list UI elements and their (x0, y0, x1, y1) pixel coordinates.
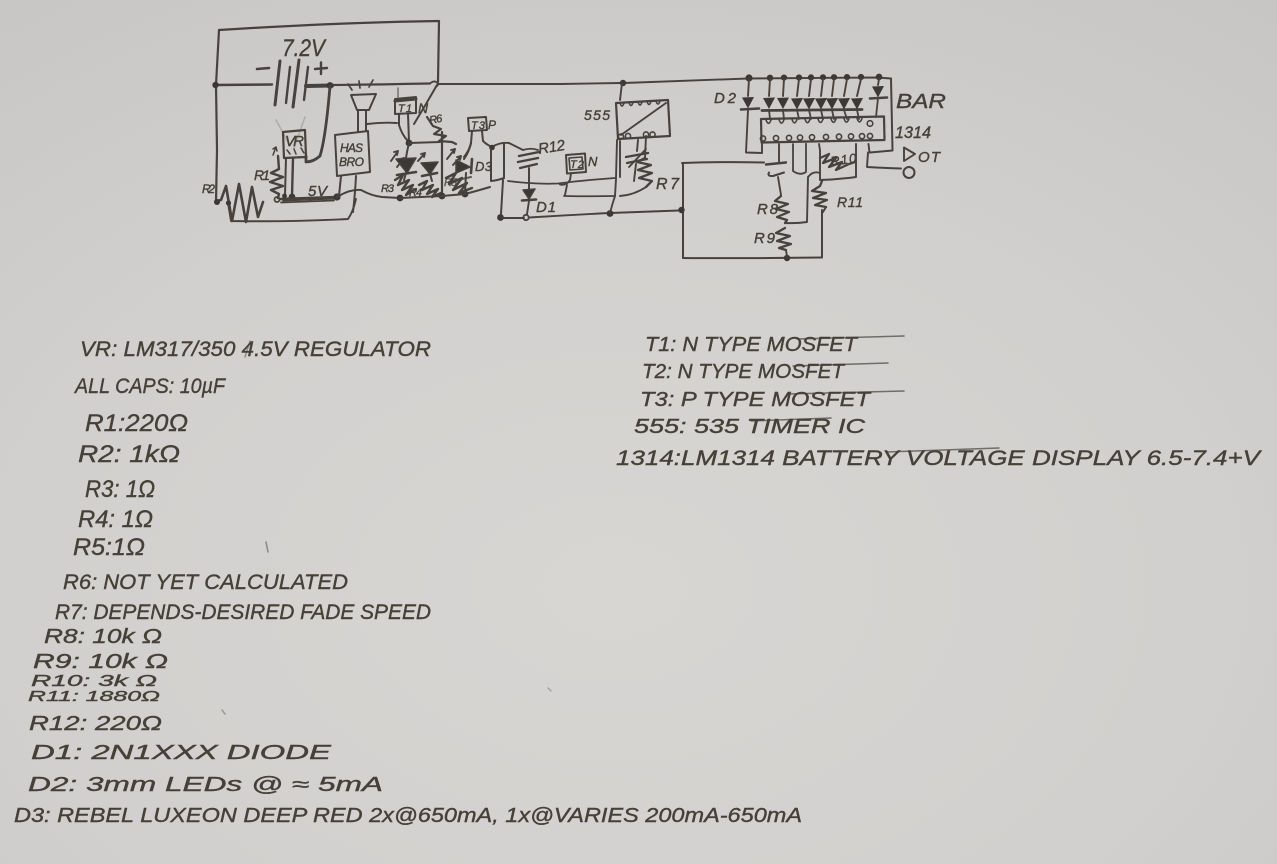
svg-text:HAS: HAS (340, 141, 363, 155)
diode D1 (523, 189, 535, 199)
T1 leads (399, 114, 408, 141)
resistor R7 (645, 136, 646, 158)
LED D2 triangles (742, 86, 884, 110)
node R3 bottom (397, 195, 404, 202)
DOT triangle (904, 148, 915, 162)
node rail to 555 (620, 80, 626, 86)
node LED3 bottom (462, 191, 469, 198)
LED D2 leads to chip (769, 98, 878, 119)
resistor R3 zigzag (395, 175, 416, 195)
buzzer HASBRO box (335, 131, 370, 176)
svg-text:R3: R3 (381, 183, 395, 195)
wire rail to 555 (620, 83, 622, 100)
svg-text:R11: R11 (837, 194, 863, 210)
handwriting overline T2 MOSFET (793, 363, 888, 366)
svg-text:5V: 5V (308, 183, 329, 200)
svg-text:D3: D3 (475, 159, 493, 174)
capacitor C2 under 555 (637, 140, 638, 151)
svg-text:R4: R4 (409, 187, 422, 199)
faint pencil smudge (276, 117, 305, 148)
node dot-mode circle (904, 167, 915, 178)
svg-text:R5:1Ω: R5:1Ω (73, 534, 145, 561)
wire rail bump to LED block (337, 190, 400, 198)
node D1 circle (523, 215, 528, 220)
VR lead left (285, 158, 286, 195)
VR pin marks (287, 148, 304, 154)
capacitor C3 under chip (778, 144, 780, 162)
resistor R2 zigzag (216, 184, 263, 222)
svg-text:N: N (588, 154, 598, 169)
svg-text:R9: R9 (754, 230, 776, 247)
battery box outline (219, 21, 439, 82)
node R2 right small circle (275, 197, 280, 202)
wire lower horizontal to 555 (564, 195, 615, 197)
wire left outer vertical (216, 85, 217, 202)
svg-text:R8: 10k Ω: R8: 10k Ω (44, 626, 162, 648)
LED D3b (421, 162, 438, 174)
svg-text:R1: R1 (254, 167, 270, 183)
555 diagonal (621, 103, 666, 135)
node T1 source (406, 140, 413, 147)
svg-text:R3: 1Ω: R3: 1Ω (85, 476, 155, 503)
svg-text:R1:220Ω: R1:220Ω (85, 410, 188, 437)
wire 555 left leads (616, 140, 620, 178)
wire mid vertical under R6 (441, 132, 443, 195)
wire bracket verticals (491, 149, 504, 181)
svg-text:1314:LM1314 BATTERY VOLTAGE DI: 1314:LM1314 BATTERY VOLTAGE DISPLAY 6.5-… (616, 447, 1262, 470)
wire top rail middle (438, 83, 621, 84)
resistor R10 zigzag (820, 154, 855, 170)
svg-text:VR: VR (285, 133, 304, 150)
chip bottom pin circles (760, 133, 872, 141)
wire 5V rail double line (280, 197, 336, 199)
node lower rail mid (607, 210, 614, 217)
svg-text:P: P (488, 118, 496, 132)
speaker sound ticks (348, 80, 373, 90)
svg-text:R12: 220Ω: R12: 220Ω (29, 713, 162, 735)
wire top rail left segment (215, 83, 272, 86)
capacitor R12 squiggle (519, 152, 539, 156)
resistor R9 (776, 228, 791, 250)
svg-text:T2: T2 (570, 159, 584, 171)
resistor R1 zigzag (270, 156, 283, 198)
stray pencil tick (266, 542, 268, 552)
svg-text:D3: REBEL LUXEON DEEP RED 2x@: D3: REBEL LUXEON DEEP RED 2x@650mA, 1x@V… (14, 805, 802, 827)
chip pin leads down (793, 144, 806, 174)
resistor R10 frame (819, 144, 856, 180)
wire mid horizontal (508, 178, 615, 184)
node battery plus (327, 82, 334, 89)
svg-text:R6: NOT YET CALCULATED: R6: NOT YET CALCULATED (63, 571, 348, 594)
wire T3 to R12 (492, 143, 523, 150)
svg-text:D1: D1 (536, 199, 556, 216)
wire R12 lead down (528, 168, 530, 189)
wire LED1 cathode around chip (746, 110, 762, 153)
LED D2 cathode bars smear (741, 109, 759, 110)
T3 leads (464, 131, 472, 157)
svg-text:R9: 10k Ω: R9: 10k Ω (33, 651, 168, 673)
transistor T1 box (395, 97, 416, 114)
resistor R4 zigzag (419, 181, 441, 197)
handwriting overline T3 MOSFET (787, 391, 904, 394)
LED D3c (456, 160, 470, 173)
svg-text:R11: 1880Ω: R11: 1880Ω (28, 688, 160, 705)
chip top pin bumps (766, 118, 862, 123)
node lower rail left (497, 214, 504, 221)
handwriting overline T1 MOSFET (797, 336, 904, 339)
VR lead right (292, 158, 293, 196)
svg-text:555: 555 (584, 107, 610, 123)
buzzer lead left (339, 176, 341, 196)
handwriting overline VOLTAGE (887, 448, 999, 452)
node 5V junction (333, 193, 340, 200)
frame box around R8 R9 (682, 161, 764, 164)
wire lower rail (503, 211, 679, 219)
handwriting overline TIMER (751, 418, 831, 421)
buzzer lead right (353, 176, 356, 212)
svg-text:N: N (418, 100, 429, 116)
svg-text:7.2V: 7.2V (282, 35, 327, 62)
wire speaker to T1 (367, 123, 397, 124)
svg-text:D2: 3mm LEDs @ ≈ 5mA: D2: 3mm LEDs @ ≈ 5mA (28, 774, 383, 796)
LED D3a arrows (391, 151, 404, 167)
node VR right junction (289, 194, 296, 201)
svg-text:BAR: BAR (896, 91, 946, 113)
resistor R11 zigzag (812, 181, 827, 207)
wire bottom return loop (228, 199, 356, 221)
svg-text:OT: OT (918, 149, 942, 166)
node frame bottom (784, 255, 790, 261)
wire R8 R9 junction to chip (785, 172, 820, 223)
svg-text:ALL CAPS: 10µF: ALL CAPS: 10µF (73, 375, 226, 398)
svg-text:VR: LM317/350 4.5V REGULATOR: VR: LM317/350 4.5V REGULATOR (80, 338, 431, 361)
resistor R8 (775, 196, 789, 223)
transistor T2 box (566, 154, 586, 174)
node VR left (282, 194, 287, 199)
node battery left (212, 82, 218, 88)
555 bottom pin circles (618, 134, 623, 139)
speaker symbol (351, 94, 376, 110)
battery B1 symbol (257, 68, 269, 69)
svg-text:R7: DEPENDS-DESIRED FADE SPEED: R7: DEPENDS-DESIRED FADE SPEED (55, 601, 431, 624)
wire to dot-mode pin (867, 153, 901, 169)
wire LED rail (400, 187, 490, 198)
svg-text:R8: R8 (757, 201, 779, 218)
LED D3a (396, 158, 416, 173)
LED D2 leads from rail (748, 79, 879, 96)
svg-text:1314: 1314 (895, 123, 931, 142)
svg-text:T2: N TYPE MOSFET: T2: N TYPE MOSFET (642, 361, 846, 383)
LED D3c arrows (447, 149, 461, 165)
wire outer right edge (891, 79, 893, 151)
node bar dots on rail (745, 74, 882, 82)
svg-text:T1: T1 (398, 103, 412, 115)
svg-text:T3: T3 (471, 120, 486, 132)
node T3 wire (489, 145, 495, 151)
wire top rail right (624, 78, 891, 84)
svg-text:D1: 2N1XXX DIODE: D1: 2N1XXX DIODE (31, 742, 332, 764)
555 top pin bumps (620, 101, 660, 106)
wire rail to T1 diagonal (414, 85, 437, 124)
wire top rail after battery (306, 84, 332, 89)
svg-text:R2: 1kΩ: R2: 1kΩ (78, 441, 180, 468)
VR arrow A (273, 147, 277, 155)
IC 1314 chip body (761, 117, 885, 143)
node mid rail (439, 193, 446, 200)
svg-text:T1: N TYPE MOSFET: T1: N TYPE MOSFET (645, 334, 859, 356)
svg-text:R2: R2 (202, 182, 215, 196)
node left rail bottom (214, 199, 220, 205)
node loop left (226, 200, 231, 205)
svg-text:R4: 1Ω: R4: 1Ω (78, 506, 153, 533)
resistor R6 zigzag (427, 117, 456, 144)
LED D3b arrows (418, 153, 425, 161)
slash in VR note line (245, 341, 250, 357)
node frame left (678, 207, 684, 213)
svg-text:T3: P TYPE MOSFET: T3: P TYPE MOSFET (640, 389, 872, 411)
regulator VR box (283, 130, 306, 158)
stray speck (222, 710, 225, 714)
svg-text:555: 535 TIMER IC: 555: 535 TIMER IC (634, 416, 866, 438)
transistor T3 box (468, 117, 487, 131)
resistor R5 zigzag (446, 173, 472, 193)
wire bracket to lower rail (501, 180, 503, 214)
wire battery plus down to VR (306, 86, 330, 162)
svg-text:R5: R5 (444, 177, 458, 189)
svg-text:BRO: BRO (339, 155, 364, 169)
wire node to R6 vertical (409, 142, 440, 143)
T2 lead (560, 174, 571, 185)
node hook at battery box right (430, 81, 438, 87)
timer 555 box (616, 100, 670, 139)
